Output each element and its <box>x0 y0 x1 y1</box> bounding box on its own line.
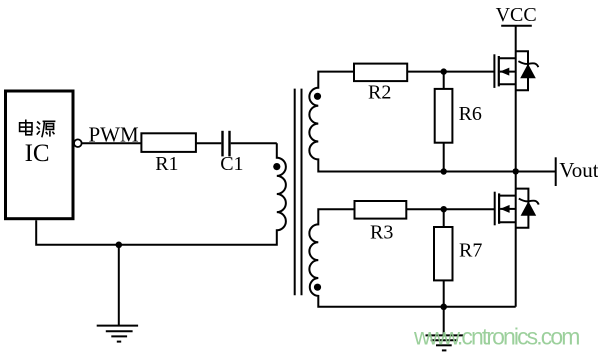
VCC terminal <box>501 25 532 27</box>
svg-text:R1: R1 <box>155 153 178 175</box>
node junction R6 bottom rail <box>441 168 447 174</box>
mosfet Q1 channel bar <box>498 56 500 86</box>
secondary 2 polarity dot <box>314 284 321 291</box>
node junction R3/R7/gate <box>441 206 447 212</box>
node junction R2/R6/gate <box>441 68 447 74</box>
resistor R2 <box>354 64 407 82</box>
svg-text:IC: IC <box>25 140 50 167</box>
wire C1 to transformer primary <box>231 142 277 144</box>
wire R7 top stub <box>443 209 445 227</box>
resistor R7 <box>434 227 453 280</box>
transformer secondary 2 (bottom) <box>309 209 515 307</box>
wire R1 to C1 <box>196 142 221 144</box>
resistor R6 <box>435 89 453 143</box>
svg-text:www.cntronics.com: www.cntronics.com <box>413 324 579 350</box>
mosfet Q2 drain bar <box>499 195 516 197</box>
wire R7 bottom stub <box>443 280 445 306</box>
resistor R1 <box>141 133 196 152</box>
mosfet Q1 bottom bar <box>499 83 516 85</box>
capacitor C1 <box>221 131 223 157</box>
node Vout junction <box>513 168 519 174</box>
mosfet Q2 gate bar <box>494 192 496 226</box>
secondary 1 polarity dot <box>314 93 321 100</box>
mosfet Q1 drain bar <box>499 57 516 59</box>
mosfet Q2 source bar with arrow <box>500 208 516 210</box>
node junction primary return <box>116 242 123 249</box>
primary polarity dot <box>273 163 280 170</box>
mosfet Q1 gate bar <box>493 54 495 88</box>
transformer secondary 1 (top) <box>309 72 555 172</box>
mosfet Q1 body diode branch <box>516 51 528 90</box>
wire PWM to R1 <box>82 142 142 144</box>
transformer primary winding <box>36 143 286 245</box>
label 源 (drawn strokes) <box>37 121 56 137</box>
mosfet Q2 body diode branch <box>516 189 529 228</box>
wire R6 top stub <box>443 72 445 89</box>
Vout terminal bar <box>555 157 557 186</box>
svg-text:R2: R2 <box>368 81 391 103</box>
mosfet Q2 bottom bar <box>499 221 516 223</box>
wire R6 bottom stub <box>443 143 445 172</box>
node PWM output circle <box>74 139 82 147</box>
mosfet Q2 channel bar <box>498 193 500 223</box>
wire R3 to gate Q2 <box>406 208 494 210</box>
svg-text:R7: R7 <box>459 239 482 261</box>
power IC box (电源 IC) <box>6 91 74 219</box>
mosfet Q1 source bar with arrow <box>500 71 516 73</box>
svg-text:R3: R3 <box>370 221 393 243</box>
transformer core <box>294 89 296 296</box>
node junction R7 bottom rail <box>440 304 447 311</box>
ground 1 (left) <box>118 245 120 326</box>
svg-text:R6: R6 <box>459 103 482 125</box>
svg-text:Vout: Vout <box>559 158 598 182</box>
wire VCC vertical rail <box>515 26 517 307</box>
resistor R3 <box>355 201 407 219</box>
wire R2 to gate Q1 <box>407 71 494 73</box>
svg-text:VCC: VCC <box>496 4 537 26</box>
ground 2 (right) <box>443 307 445 336</box>
label 电 (drawn strokes) <box>20 120 32 135</box>
svg-text:C1: C1 <box>220 153 243 175</box>
